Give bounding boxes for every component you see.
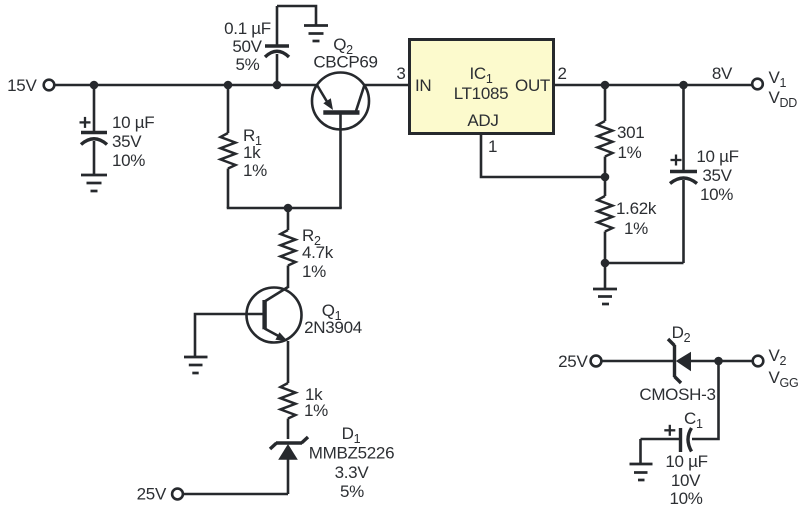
svg-text:MMBZ5226: MMBZ5226 — [309, 444, 394, 463]
svg-text:10 µF: 10 µF — [665, 452, 707, 471]
node divider top — [601, 81, 610, 90]
svg-text:1: 1 — [488, 137, 497, 156]
terminal V2/VGG — [753, 346, 799, 390]
transistor Q2 CBCP69 — [312, 35, 378, 130]
ground (C1) — [630, 464, 653, 480]
node divider bottom junction — [601, 259, 610, 268]
transistor Q1 2N3904 — [247, 287, 362, 343]
svg-text:OUT: OUT — [515, 76, 550, 95]
wire divider bottom to output cap — [605, 262, 684, 265]
svg-text:10%: 10% — [669, 489, 702, 508]
terminal V1/VDD — [752, 68, 797, 110]
wire 25V to D2 — [602, 360, 673, 363]
resistor 301 — [598, 85, 645, 177]
ground (input cap) — [81, 175, 107, 191]
op-amp IC1 LT1085 regulator — [410, 40, 554, 134]
svg-text:10%: 10% — [112, 151, 145, 170]
svg-text:5%: 5% — [236, 55, 260, 74]
resistor 1k — [281, 383, 329, 439]
wire R1 bottom to Q2 base — [227, 207, 342, 210]
wire bypass cap to ground — [277, 6, 316, 25]
svg-text:25V: 25V — [137, 485, 167, 504]
wire 15V rail to Q2 emitter — [55, 84, 318, 87]
svg-text:35V: 35V — [112, 132, 142, 151]
node output cap top — [679, 81, 688, 90]
svg-text:2N3904: 2N3904 — [304, 318, 362, 337]
svg-text:15V: 15V — [7, 76, 37, 95]
svg-text:LT1085: LT1085 — [454, 84, 509, 103]
svg-text:10V: 10V — [671, 471, 701, 490]
svg-text:8V: 8V — [712, 64, 733, 83]
svg-text:CBCP69: CBCP69 — [313, 52, 377, 71]
terminal 15V — [7, 76, 54, 95]
capacitor C1 10uF — [641, 409, 708, 508]
wire V2 node down to C1 — [692, 361, 719, 439]
resistor R2 4.7k — [281, 208, 334, 288]
ground (bypass cap) — [304, 26, 328, 42]
svg-text:10 µF: 10 µF — [112, 113, 154, 132]
wire OUT rail — [554, 84, 752, 87]
wire Q1 emitter down — [287, 341, 290, 383]
node R2 top junction — [284, 204, 293, 213]
svg-text:0.1 µF: 0.1 µF — [224, 19, 271, 38]
svg-text:IN: IN — [415, 76, 431, 95]
node V2 junction — [714, 357, 723, 366]
svg-text:1%: 1% — [624, 219, 648, 238]
svg-text:2: 2 — [558, 64, 567, 83]
capacitor 10uF output — [670, 85, 739, 263]
capacitor 10uF input — [80, 85, 155, 175]
svg-text:1k: 1k — [243, 143, 261, 162]
capacitor 0.1uF bypass — [224, 6, 289, 85]
node bypass cap junction — [273, 81, 282, 90]
wire Q1 base to ground — [195, 314, 247, 357]
terminal 25V (right) — [558, 352, 601, 371]
svg-text:1%: 1% — [243, 161, 267, 180]
svg-text:3: 3 — [396, 64, 405, 83]
ground (Q1 base) — [184, 357, 208, 373]
svg-text:CMOSH-3: CMOSH-3 — [639, 385, 715, 404]
diode D1 zener MMBZ5226 — [270, 424, 394, 501]
svg-text:1.62k: 1.62k — [616, 199, 657, 218]
svg-text:10%: 10% — [700, 185, 733, 204]
terminal 25V (bottom left) — [137, 485, 183, 504]
node R1 top junction — [224, 81, 233, 90]
wire Q2 base down — [339, 113, 342, 208]
svg-text:ADJ: ADJ — [467, 111, 498, 130]
node ADJ junction — [601, 173, 610, 182]
wire to ground (divider) — [604, 263, 607, 289]
svg-text:301: 301 — [617, 123, 644, 142]
svg-text:5%: 5% — [340, 482, 364, 501]
svg-text:10 µF: 10 µF — [696, 147, 738, 166]
wire 25V to D1 anode — [183, 493, 288, 496]
svg-text:1%: 1% — [304, 401, 328, 420]
node input cap junction — [90, 81, 99, 90]
svg-text:25V: 25V — [558, 352, 588, 371]
resistor R1 1k — [221, 85, 268, 208]
diode D2 zener CMOSH-3 — [639, 323, 751, 404]
svg-text:35V: 35V — [702, 166, 732, 185]
ground (divider) — [593, 289, 617, 304]
wire Q2 collector to IC IN — [364, 84, 409, 87]
resistor 1.62k — [598, 177, 657, 263]
svg-text:1%: 1% — [302, 262, 326, 281]
svg-text:50V: 50V — [232, 37, 262, 56]
wire ADJ pin — [481, 134, 605, 177]
svg-text:1%: 1% — [618, 143, 642, 162]
wire C1 to ground — [639, 439, 642, 464]
svg-text:4.7k: 4.7k — [302, 243, 334, 262]
svg-text:3.3V: 3.3V — [335, 463, 370, 482]
